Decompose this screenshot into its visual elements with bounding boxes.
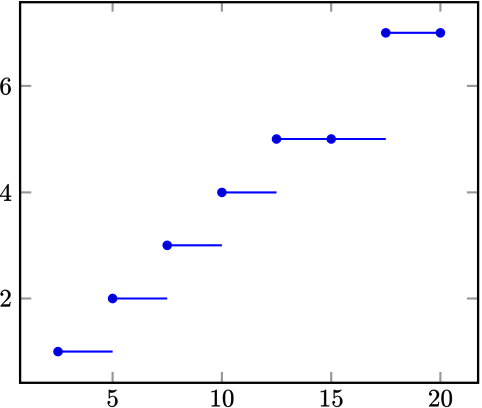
x tick at 5 (top) — [112, 2, 114, 12]
y tick at 6 (right) — [467, 85, 478, 87]
x axis tick label 15 — [321, 390, 329, 407]
y axis tick label 6 — [0, 78, 10, 95]
data mark (17.5,7) — [382, 29, 390, 37]
x tick at 10 (bottom) — [221, 372, 223, 383]
y tick at 4 (left) — [20, 191, 31, 193]
data mark (10,4) — [218, 188, 226, 196]
step segment from (15,5) to x=17.5 — [331, 138, 386, 140]
step segment from (5,2) to x=7.5 — [113, 297, 168, 299]
y tick at 2 (left) — [20, 297, 31, 299]
data mark (7.5,3) — [163, 241, 171, 249]
y axis tick label 2 — [1, 290, 11, 307]
y tick at 4 (right) — [467, 191, 478, 193]
x axis tick label 10 — [212, 390, 220, 407]
data mark (2.5,1) — [54, 348, 62, 356]
x tick at 15 (top) — [330, 2, 332, 12]
data mark (15,5) — [327, 135, 335, 143]
step segment from (17.5,7) to x=20 — [386, 32, 441, 34]
x axis tick label 5 — [108, 390, 118, 407]
step segment from (12.5,5) to x=15 — [277, 138, 332, 140]
data mark (12.5,5) — [273, 135, 281, 143]
step segment from (2.5,1) to x=5 — [58, 351, 113, 353]
x tick at 10 (top) — [221, 2, 223, 12]
step segment from (7.5,3) to x=10 — [167, 244, 222, 246]
data mark (20,7) — [436, 29, 444, 37]
x tick at 5 (bottom) — [112, 372, 114, 383]
step segment from (10,4) to x=12.5 — [222, 191, 277, 193]
x tick at 15 (bottom) — [330, 372, 332, 383]
y tick at 6 (left) — [20, 85, 31, 87]
x axis tick label 20 — [429, 390, 439, 407]
data mark (5,2) — [109, 295, 117, 303]
x tick at 20 (bottom) — [439, 372, 441, 383]
y axis tick label 4 — [0, 184, 11, 201]
y tick at 2 (right) — [467, 297, 478, 299]
x tick at 20 (top) — [439, 2, 441, 12]
